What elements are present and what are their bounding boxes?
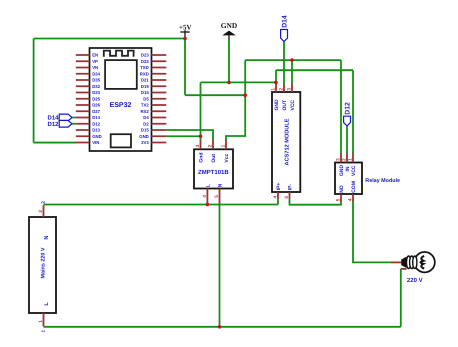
lamp pin stub bottom: [401, 268, 407, 270]
svg-text:D19: D19: [141, 84, 149, 89]
ESP32 USB connector: [111, 134, 131, 147]
lamp base cone: [401, 256, 407, 268]
svg-text:4: 4: [273, 196, 279, 199]
svg-text:D21: D21: [141, 78, 149, 83]
wire Mains L bottom rail to lamp: [44, 269, 401, 327]
svg-text:GND: GND: [274, 99, 280, 111]
svg-text:3V3: 3V3: [141, 140, 149, 145]
node flag D14 (top): [281, 15, 289, 41]
svg-text:1: 1: [221, 144, 227, 147]
svg-text:2: 2: [279, 88, 285, 91]
ESP32 left pin names: [92, 53, 102, 146]
svg-text:D14: D14: [92, 115, 100, 120]
svg-text:D5: D5: [143, 96, 149, 101]
svg-text:L: L: [44, 302, 50, 306]
Mains 220V source body: [29, 217, 56, 313]
svg-text:N: N: [217, 183, 223, 187]
ZMPT101B top pin stubs: [201, 140, 227, 150]
svg-text:L: L: [205, 184, 211, 187]
Relay module body: [335, 163, 362, 195]
Relay pin names NO COM: [339, 181, 357, 193]
ZMPT101B voltage sensor body: [194, 149, 233, 188]
ACS712 top pin stubs: [276, 84, 292, 92]
svg-text:RXD: RXD: [140, 71, 149, 76]
svg-text:1: 1: [271, 88, 277, 91]
svg-text:D23: D23: [141, 53, 149, 58]
ACS712 pin names IP+ IP-: [276, 183, 294, 191]
ZMPT101B pin numbers 3 2 1: [195, 144, 227, 147]
svg-text:Vcc: Vcc: [224, 153, 230, 162]
lamp pin stub left: [391, 261, 402, 263]
wire ACS712 IP- to relay NO: [290, 199, 342, 205]
svg-text:OUT: OUT: [282, 100, 288, 111]
svg-text:Mains 220 V: Mains 220 V: [40, 247, 46, 278]
ACS712 pin numbers 1 2 3: [271, 88, 293, 91]
node flag D12 (above relay): [344, 102, 352, 126]
wire GND left riser to ZMPT Gnd: [200, 82, 202, 140]
junction ZMPT L / mains N rail: [206, 203, 210, 207]
svg-text:3: 3: [195, 144, 201, 147]
svg-text:RX2: RX2: [140, 109, 149, 114]
junction GND symbol: [227, 81, 231, 85]
ZMPT101B bottom pin stubs: [207, 189, 219, 205]
junction +5V mid rail: [243, 93, 247, 97]
wire ESP32 GND to riser: [166, 135, 200, 137]
svg-text:VN: VN: [92, 65, 98, 70]
wire ESP32 D15 to ZMPT Out: [166, 130, 213, 140]
svg-text:D13: D13: [92, 128, 100, 133]
wire ZMPT N down: [219, 203, 221, 326]
svg-text:D26: D26: [92, 103, 100, 108]
wire to VIN pin: [34, 142, 76, 144]
svg-text:220 V: 220 V: [407, 277, 423, 284]
ACS712 bottom pin stubs: [278, 192, 290, 199]
wire down to relay GND pin: [340, 60, 342, 153]
junction ESP32 GND / ZMPT Gnd: [199, 134, 203, 138]
svg-text:2: 2: [208, 144, 214, 147]
ZMPT101B pin names Gnd Out Vcc: [198, 153, 230, 163]
wire +5V left vertical: [33, 39, 35, 143]
ESP32 right pin names: [139, 53, 149, 146]
wire Mains N to ZMPT L and ACS712 IP+: [44, 199, 279, 204]
svg-text:D18: D18: [141, 90, 149, 95]
wire +5V symbol down: [184, 39, 186, 96]
svg-text:5: 5: [214, 195, 220, 198]
ESP32 antenna meander: [104, 51, 134, 57]
ZMPT101B pin names L N: [205, 183, 223, 187]
svg-text:D14: D14: [281, 15, 288, 28]
GND ground symbol: [221, 21, 237, 40]
svg-text:Gnd: Gnd: [198, 153, 204, 163]
svg-text:Out: Out: [211, 154, 217, 163]
svg-text:D34: D34: [92, 71, 100, 76]
svg-text:2: 2: [342, 158, 348, 161]
junction ACS712 VCC tap: [290, 58, 294, 62]
+5V power symbol: [179, 24, 192, 39]
svg-text:IP-: IP-: [287, 184, 293, 191]
ZMPT101B pin numbers 4 5: [202, 195, 220, 198]
svg-text:VCC: VCC: [351, 165, 357, 176]
wire +5V down to ZMPT Vcc: [226, 95, 245, 140]
svg-text:ESP32: ESP32: [110, 102, 132, 109]
ESP32 chip square: [105, 60, 137, 89]
Relay pin names GND IN VCC: [339, 165, 357, 177]
svg-text:VP: VP: [92, 59, 98, 64]
Relay pin numbers 5 4: [336, 198, 354, 201]
svg-text:D33: D33: [92, 90, 100, 95]
svg-text:COM: COM: [351, 181, 357, 193]
ACS712 pin names GND OUT VCC: [274, 99, 296, 111]
svg-text:4: 4: [202, 195, 208, 198]
svg-text:4: 4: [348, 198, 354, 201]
svg-text:N: N: [44, 236, 50, 240]
junction +5V symbol: [183, 37, 187, 41]
wire down to ACS712 VCC pin: [291, 60, 293, 84]
Relay top pin stubs: [341, 153, 353, 163]
svg-text:5: 5: [284, 196, 290, 199]
wire D12 flag to relay IN: [346, 126, 348, 153]
wire GND rail to relay VCC: [276, 70, 353, 153]
svg-text:TX2: TX2: [141, 103, 149, 108]
wire +5V to ESP32 VIN (top horizontal): [34, 38, 185, 40]
svg-text:VCC: VCC: [290, 100, 296, 111]
svg-text:5: 5: [336, 198, 342, 201]
svg-text:1: 1: [348, 158, 354, 161]
wire +5V riser up: [244, 60, 246, 95]
wire +5V top rail to relay: [245, 59, 341, 61]
lamp 220V bulb glass: [414, 252, 434, 272]
wire GND horizontal rail: [201, 81, 277, 83]
wire GND symbol down: [228, 40, 230, 82]
svg-text:NO: NO: [339, 185, 345, 193]
junction ACS712 GND tap: [274, 81, 278, 85]
svg-text:ZMPT101B: ZMPT101B: [198, 169, 229, 176]
lamp screw threads: [406, 256, 417, 269]
node flag D12 (left): [47, 120, 75, 128]
node flag D14 (left): [47, 114, 75, 122]
svg-text:D27: D27: [92, 109, 100, 114]
svg-text:GND: GND: [139, 134, 149, 139]
svg-text:D12: D12: [47, 121, 59, 128]
Relay bottom pin stubs: [341, 194, 353, 202]
svg-text:3: 3: [336, 158, 342, 161]
lamp filament: [420, 256, 424, 269]
wire relay COM to lamp: [353, 202, 391, 263]
svg-text:Relay Module: Relay Module: [365, 178, 400, 184]
svg-text:IP+: IP+: [276, 183, 282, 191]
ESP32 module U1 body: [90, 48, 152, 151]
ESP32 left pin stubs: [76, 55, 90, 143]
svg-text:GND: GND: [221, 21, 237, 30]
svg-text:GND: GND: [92, 134, 102, 139]
svg-text:1: 1: [38, 320, 44, 323]
ESP32 right pin stubs: [152, 55, 167, 143]
svg-text:D25: D25: [92, 96, 100, 101]
Mains bottom pin stub: [43, 313, 45, 327]
ACS712 current sensor body: [272, 92, 300, 192]
svg-text:D32: D32: [92, 84, 100, 89]
svg-text:D15: D15: [141, 128, 149, 133]
svg-text:D2: D2: [143, 121, 149, 126]
svg-text:D22: D22: [141, 59, 149, 64]
svg-text:EN: EN: [92, 53, 98, 58]
svg-text:VIN: VIN: [92, 140, 99, 145]
svg-text:D12: D12: [92, 121, 100, 126]
svg-text:ACS712 MODULE: ACS712 MODULE: [284, 118, 290, 165]
Relay pin numbers 3 2 1: [336, 158, 354, 161]
svg-text:D35: D35: [92, 78, 100, 83]
ACS712 pin numbers 4 5: [273, 196, 291, 199]
svg-text:TXD: TXD: [140, 65, 149, 70]
wire GND down to ACS712 GND pin: [275, 70, 277, 84]
svg-text:3: 3: [287, 88, 293, 91]
svg-text:D14: D14: [47, 115, 59, 122]
Mains top pin stub: [43, 205, 45, 217]
wire D14 flag to ACS712 OUT: [283, 42, 285, 85]
svg-text:D4: D4: [143, 115, 149, 120]
svg-text:2: 2: [38, 210, 44, 213]
wire +5V horizontal mid: [185, 94, 245, 96]
svg-text:D12: D12: [344, 102, 351, 115]
junction ZMPT N / mains L rail: [218, 325, 222, 329]
